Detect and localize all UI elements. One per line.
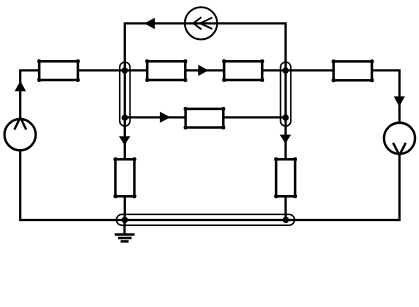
junction node B row2 [282, 114, 288, 120]
wire right resistor to ground net [284, 196, 286, 220]
current arrow on left branch (pointing up) [15, 81, 26, 91]
junction node A row1 [122, 67, 128, 73]
current arrow middle row (pointing right) [160, 112, 171, 123]
controlled current source I3 (top) [185, 7, 217, 39]
junction ground net right [283, 217, 289, 223]
resistor R1 [37, 59, 80, 82]
wire bottom [20, 151, 399, 220]
wire top loop [125, 23, 286, 159]
ground [115, 220, 135, 242]
wire left resistor to ground net [124, 196, 126, 220]
wire main row [20, 70, 399, 122]
resistor R5 (top right) [332, 59, 374, 82]
node bus bottom (stadium around ground net) [116, 214, 294, 225]
resistor R3 [222, 59, 264, 82]
current arrow on top wire (pointing left) [144, 18, 155, 29]
junction node B row1 [282, 67, 288, 73]
resistor R6 (left vertical) [113, 157, 136, 198]
wire middle row [125, 116, 286, 118]
resistor R4 (middle row) [184, 107, 226, 130]
junction node A row2 [122, 114, 128, 120]
current arrow main row (pointing right) [198, 65, 208, 76]
node bus right (stadium around node B) [281, 62, 291, 126]
junction ground net left [122, 217, 128, 223]
current arrow into right vertical resistor (pointing down) [280, 135, 291, 144]
node bus left (stadium around node A) [120, 62, 130, 126]
current arrow on right branch (pointing down) [394, 96, 405, 106]
current source I2 (right) [384, 123, 415, 155]
current source I1 (left) [5, 117, 36, 150]
resistor R2 [145, 59, 187, 82]
resistor R7 (right vertical) [274, 157, 297, 198]
current arrow into left vertical resistor (pointing down) [119, 136, 130, 145]
